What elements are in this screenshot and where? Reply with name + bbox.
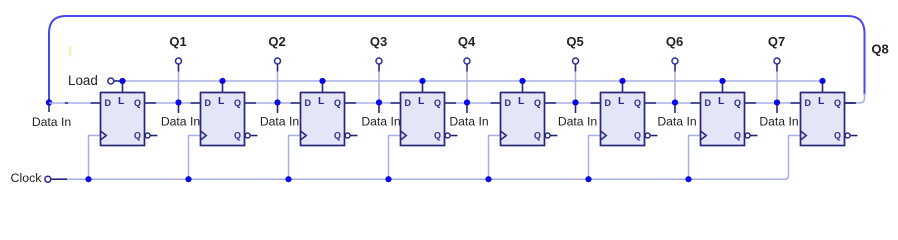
label Data In (stage 7) bbox=[657, 115, 696, 129]
svg-text:Q6: Q6 bbox=[666, 34, 683, 49]
label Q2 bbox=[268, 34, 285, 49]
node: Load junction / L pin stub FF8 bbox=[819, 78, 825, 93]
terminal Q2 bbox=[275, 58, 281, 100]
svg-text:Q: Q bbox=[734, 130, 741, 140]
svg-text:Q7: Q7 bbox=[768, 34, 785, 49]
svg-text:Q: Q bbox=[634, 98, 641, 108]
wire: FF6 Q to FF7 D net bbox=[656, 102, 691, 104]
svg-text:Q: Q bbox=[234, 130, 241, 140]
svg-text:Data In: Data In bbox=[361, 115, 400, 129]
flip-flop U2 (D flip-flop with load) bbox=[191, 93, 258, 146]
node: Load junction / L pin stub FF4 bbox=[419, 78, 425, 93]
svg-text:L: L bbox=[218, 95, 225, 107]
wire: clock riser to FF1 bbox=[85, 136, 100, 183]
wire: corner joining Q8 output to loop bbox=[854, 94, 864, 104]
svg-text:Data In: Data In bbox=[260, 115, 299, 129]
wire: Clock rail bbox=[67, 136, 801, 180]
svg-text:D: D bbox=[505, 98, 512, 108]
svg-text:D: D bbox=[205, 98, 212, 108]
svg-text:Data In: Data In bbox=[161, 115, 200, 129]
label Q5 bbox=[566, 34, 583, 49]
svg-text:D: D bbox=[405, 98, 412, 108]
label Data In (stage 6) bbox=[558, 115, 597, 129]
svg-text:Data In: Data In bbox=[32, 115, 71, 129]
svg-text:Q: Q bbox=[534, 130, 541, 140]
terminal Q5 bbox=[573, 58, 579, 100]
svg-text:D: D bbox=[305, 98, 312, 108]
wire: Load rail bbox=[123, 80, 823, 82]
svg-text:L: L bbox=[518, 95, 525, 107]
node: Data In junction (stage 7) bbox=[672, 99, 678, 113]
label Q6 bbox=[666, 34, 683, 49]
label Q3 bbox=[370, 34, 387, 49]
node: Load junction / L pin stub FF1 bbox=[119, 78, 125, 93]
svg-text:Q: Q bbox=[434, 130, 441, 140]
wire: FF7 Q to FF8 D net bbox=[756, 102, 791, 104]
svg-text:L: L bbox=[818, 95, 825, 107]
svg-text:Data In: Data In bbox=[657, 115, 696, 129]
wire: FF2 Q to FF3 D net bbox=[256, 102, 291, 104]
svg-text:D: D bbox=[605, 98, 612, 108]
node: Data In junction (stage 6) bbox=[572, 99, 578, 113]
flip-flop U1 (D flip-flop with load) bbox=[91, 93, 158, 146]
wire: Data In to FF1 D bbox=[49, 102, 91, 104]
svg-text:Q3: Q3 bbox=[370, 34, 387, 49]
flip-flop U6 (D flip-flop with load) bbox=[591, 93, 658, 146]
terminal Q3 bbox=[376, 58, 382, 100]
label Data In (stage 8) bbox=[759, 115, 798, 129]
svg-text:D: D bbox=[105, 98, 112, 108]
svg-text:Data In: Data In bbox=[759, 115, 798, 129]
svg-text:Q: Q bbox=[834, 130, 841, 140]
svg-text:Q: Q bbox=[134, 98, 141, 108]
svg-text:Q5: Q5 bbox=[566, 34, 583, 49]
label Q1 bbox=[169, 34, 186, 49]
svg-text:Q: Q bbox=[534, 98, 541, 108]
svg-text:Q: Q bbox=[734, 98, 741, 108]
svg-text:L: L bbox=[718, 95, 725, 107]
svg-text:L: L bbox=[118, 95, 125, 107]
flip-flop U3 (D flip-flop with load) bbox=[291, 93, 358, 146]
terminal Q1 bbox=[176, 58, 182, 100]
label Q7 bbox=[768, 34, 785, 49]
svg-text:L: L bbox=[418, 95, 425, 107]
terminal Q4 bbox=[464, 58, 470, 100]
node: Data In junction (loop to FF1 D) bbox=[46, 99, 52, 112]
terminal Q7 bbox=[774, 58, 780, 100]
label Q8 bbox=[871, 42, 888, 57]
node: Data In junction (stage 8) bbox=[774, 99, 780, 113]
svg-text:Q: Q bbox=[434, 98, 441, 108]
svg-text:D: D bbox=[805, 98, 812, 108]
svg-text:Clock: Clock bbox=[11, 171, 43, 185]
flip-flop U4 (D flip-flop with load) bbox=[391, 93, 458, 146]
node: Load junction / L pin stub FF5 bbox=[519, 78, 525, 93]
svg-text:Q: Q bbox=[134, 130, 141, 140]
terminal: Clock input bbox=[45, 176, 67, 182]
svg-text:Q: Q bbox=[334, 130, 341, 140]
label Q4 bbox=[458, 34, 476, 49]
svg-text:Q1: Q1 bbox=[169, 34, 186, 49]
wire: FF5 Q to FF6 D net bbox=[556, 102, 591, 104]
label Data In (stage 4) bbox=[361, 115, 400, 129]
label Clock bbox=[11, 171, 43, 185]
svg-text:L: L bbox=[318, 95, 325, 107]
svg-text:Q8: Q8 bbox=[871, 42, 888, 57]
label Data In (stage 1) bbox=[32, 115, 71, 129]
svg-text:Q: Q bbox=[334, 98, 341, 108]
svg-text:Data In: Data In bbox=[449, 115, 488, 129]
wire: FF8 Q output stub bbox=[845, 102, 855, 104]
wire: FF3 Q to FF4 D net bbox=[356, 102, 391, 104]
node: Load junction / L pin stub FF6 bbox=[619, 78, 625, 93]
svg-text:Load: Load bbox=[68, 73, 98, 88]
terminal: Load input bbox=[108, 78, 123, 84]
svg-text:Q2: Q2 bbox=[268, 34, 285, 49]
svg-text:Data In: Data In bbox=[558, 115, 597, 129]
node: Data In junction (stage 2) bbox=[175, 99, 181, 113]
wire: clock riser to FF6 bbox=[585, 136, 600, 183]
flip-flop U7 (D flip-flop with load) bbox=[691, 93, 758, 146]
wire: clock riser to FF7 bbox=[685, 136, 700, 183]
label Data In (stage 5) bbox=[449, 115, 488, 129]
wire: FF1 Q to FF2 D net bbox=[156, 102, 191, 104]
svg-text:Q: Q bbox=[234, 98, 241, 108]
svg-text:Q4: Q4 bbox=[458, 34, 476, 49]
wire: clock riser to FF3 bbox=[285, 136, 300, 183]
flip-flop U5 (D flip-flop with load) bbox=[491, 93, 558, 146]
label Load bbox=[68, 73, 98, 88]
svg-text:L: L bbox=[618, 95, 625, 107]
wire: clock riser to FF5 bbox=[485, 136, 500, 183]
wire: clock riser to FF4 bbox=[385, 136, 400, 183]
label Data In (stage 2) bbox=[161, 115, 200, 129]
wire: Q8 feedback loop (top) bbox=[49, 16, 865, 101]
node: Load junction / L pin stub FF3 bbox=[319, 78, 325, 93]
node: Data In junction (stage 3) bbox=[274, 99, 280, 113]
label Data In (stage 3) bbox=[260, 115, 299, 129]
svg-text:Q: Q bbox=[834, 98, 841, 108]
node: Load junction / L pin stub FF7 bbox=[719, 78, 725, 93]
svg-text:D: D bbox=[705, 98, 712, 108]
svg-text:Q: Q bbox=[634, 130, 641, 140]
flip-flop U8 (D flip-flop with load) bbox=[791, 93, 858, 146]
node: Data In junction (stage 5) bbox=[464, 99, 470, 113]
node: Load junction / L pin stub FF2 bbox=[219, 78, 225, 93]
wire: FF4 Q to FF5 D net bbox=[456, 102, 491, 104]
wire: clock riser to FF2 bbox=[185, 136, 200, 183]
node: Data In junction (stage 4) bbox=[376, 99, 382, 113]
terminal Q6 bbox=[672, 58, 678, 100]
cursor tick (pale yellow) bbox=[69, 46, 71, 57]
